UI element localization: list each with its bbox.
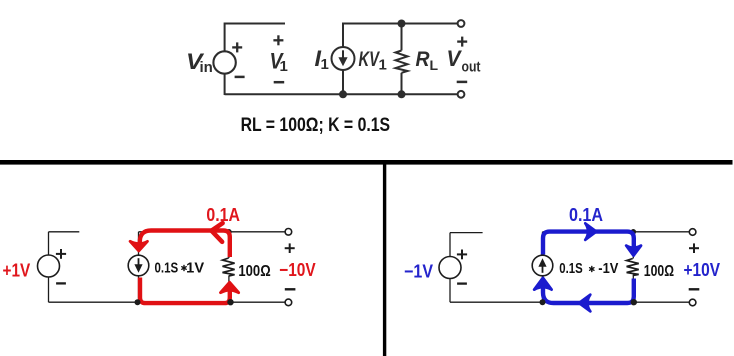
junction dot: RL top	[398, 20, 406, 28]
voltage source +1V	[38, 255, 60, 277]
wire: top rail	[139, 231, 289, 233]
junction dot bottom-right	[227, 299, 233, 305]
CS arrow down	[138, 258, 140, 265]
resistor 100ohm zigzag	[223, 258, 235, 276]
label V1	[270, 49, 288, 76]
wire: resistor bottom lead	[228, 276, 230, 302]
wire: top rail	[543, 231, 693, 233]
label Vout	[447, 46, 481, 76]
label Vin	[186, 49, 213, 76]
label 0.1S * -1V	[559, 261, 618, 277]
junction dot bottom-left	[135, 299, 141, 305]
label 0.1S*1V	[155, 261, 205, 277]
svg-text:−10V: −10V	[279, 259, 316, 280]
voltage source -1V	[439, 257, 461, 279]
wire: source top vertical	[48, 232, 50, 255]
terminal top	[285, 229, 292, 236]
svg-text:1V: 1V	[186, 261, 204, 277]
blue arrow up (into source)	[534, 278, 551, 290]
wire: RL top lead	[401, 24, 403, 51]
plus at terminal	[689, 243, 699, 253]
svg-text:1: 1	[321, 56, 329, 73]
wire: CS bottom stub	[542, 276, 544, 302]
plus at source	[457, 250, 467, 260]
wire: source top stub	[450, 232, 483, 234]
minus V1	[274, 81, 285, 84]
blue arrow right (top rail)	[585, 223, 596, 240]
svg-text:0.1A: 0.1A	[569, 204, 603, 225]
blue arrow down (into resistor)	[626, 246, 641, 256]
wire: resistor bottom lead	[632, 276, 634, 303]
horizontal divider	[0, 160, 733, 165]
svg-text:1: 1	[379, 57, 387, 74]
minus at terminal	[689, 288, 700, 290]
svg-text:0.1A: 0.1A	[206, 204, 240, 225]
current source arrow (down)	[342, 50, 344, 58]
svg-text:in: in	[200, 59, 213, 76]
current source 0.1S*1V	[128, 255, 149, 276]
resistor 100ohm zigzag	[627, 259, 639, 276]
terminal: Vout top	[458, 20, 465, 27]
wire: RL bottom lead	[401, 73, 403, 95]
wire: resistor top lead	[632, 232, 634, 259]
svg-text:R: R	[416, 48, 431, 71]
wire: CS bottom stub	[138, 276, 140, 302]
wire: top-right rail	[343, 23, 461, 25]
junction dot resistor top	[226, 229, 232, 235]
terminal bottom	[689, 299, 696, 306]
asterisk star	[590, 266, 594, 271]
asterisk star	[182, 265, 186, 270]
terminal bottom	[285, 299, 292, 306]
blue arrow left (bottom rail)	[579, 295, 591, 312]
voltage source Vin	[213, 51, 235, 73]
wire: I1 source bottom stub	[342, 70, 344, 94]
minus Vin	[235, 76, 245, 79]
wire: bottom rail	[450, 301, 693, 303]
red loop top path	[140, 231, 230, 304]
plus Vin	[232, 42, 242, 52]
svg-text:100Ω: 100Ω	[644, 263, 674, 280]
red loop bottom path	[140, 278, 230, 304]
red arrow down (into source)	[130, 241, 147, 251]
label RL	[416, 48, 439, 73]
red arrow up (into resistor)	[221, 282, 239, 292]
wire: bottom rail	[49, 301, 289, 303]
plus V1	[273, 35, 283, 45]
svg-text:0.1S: 0.1S	[155, 261, 179, 277]
red arrow left (top rail)	[212, 223, 223, 242]
wire: source top vertical	[449, 233, 451, 257]
wire: bottom rail	[225, 93, 461, 95]
minus at terminal	[285, 288, 296, 290]
wire: source top stub	[49, 231, 80, 233]
wire: Vin vertical top	[224, 23, 226, 52]
plus at source	[56, 249, 66, 259]
wire: CS top stub	[138, 232, 140, 256]
minus at source	[457, 282, 467, 284]
label I1	[315, 46, 329, 73]
svg-text:out: out	[462, 59, 481, 76]
wire: source bottom vertical	[48, 277, 50, 302]
wire: CS top stub	[542, 232, 544, 256]
svg-text:−1V: −1V	[404, 261, 433, 282]
svg-text:+1V: +1V	[3, 259, 31, 280]
plus Vout	[457, 37, 467, 47]
junction dot resistor top right	[631, 229, 637, 235]
svg-text:+10V: +10V	[684, 259, 721, 280]
current source 0.1S*-1V	[532, 255, 553, 276]
svg-text:0.1S: 0.1S	[559, 261, 583, 277]
blue loop bottom path	[543, 279, 634, 304]
blue loop top path	[543, 232, 634, 303]
wire: source bottom vertical	[449, 279, 451, 303]
label KV1	[359, 48, 387, 74]
svg-text:100Ω: 100Ω	[238, 263, 270, 280]
svg-text:V: V	[447, 46, 463, 71]
wire: resistor top lead	[228, 232, 230, 258]
wire: Vin top stub	[225, 23, 285, 25]
CS arrow up	[542, 266, 544, 273]
svg-text:RL = 100Ω; K = 0.1S: RL = 100Ω; K = 0.1S	[241, 115, 391, 136]
terminal: Vout bottom	[458, 91, 465, 98]
svg-text:L: L	[430, 57, 439, 73]
vertical divider	[383, 160, 386, 356]
junction dot bottom CS	[540, 299, 546, 305]
current source I1 = KV1	[332, 47, 355, 70]
resistor RL zigzag	[396, 51, 408, 73]
terminal top	[689, 229, 696, 236]
wire: Vin vertical bottom	[224, 74, 226, 96]
svg-text:-1V: -1V	[598, 261, 618, 277]
svg-text:1: 1	[280, 58, 288, 75]
junction dot bottom resistor	[631, 299, 637, 305]
plus at terminal	[285, 243, 295, 253]
wire: I1 source top stub	[342, 23, 344, 48]
junction dot: I1 bottom	[339, 90, 347, 98]
minus at source	[56, 282, 66, 284]
junction dot: RL bottom	[398, 90, 406, 98]
svg-text:KV: KV	[359, 48, 381, 71]
minus Vout	[457, 81, 468, 84]
